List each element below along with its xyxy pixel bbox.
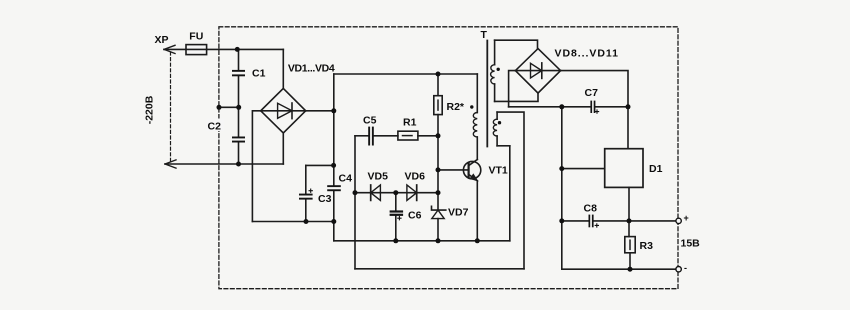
svg-text:C4: C4 [339,173,353,185]
svg-text:R1: R1 [403,117,417,129]
svg-text:C8: C8 [584,203,598,215]
svg-text:C3: C3 [318,193,332,205]
svg-text:VD5: VD5 [368,171,389,183]
svg-text:C1: C1 [252,68,266,80]
svg-text:VD7: VD7 [448,207,469,219]
svg-text:FU: FU [189,31,203,43]
svg-text:VD1...VD4: VD1...VD4 [288,63,335,75]
svg-text:-220B: -220B [144,95,156,124]
svg-text:VD8...VD11: VD8...VD11 [555,48,619,60]
svg-text:15B: 15B [681,238,701,250]
svg-text:+: + [684,213,689,223]
svg-text:C7: C7 [585,87,599,99]
svg-text:VD6: VD6 [405,171,426,183]
svg-text:XP: XP [155,34,169,46]
svg-text:C5: C5 [363,115,377,127]
svg-text:T: T [481,29,488,41]
svg-text:C6: C6 [408,210,422,222]
svg-text:R2*: R2* [447,101,465,113]
svg-text:C2: C2 [208,121,222,133]
svg-text:D1: D1 [649,163,663,175]
svg-text:R3: R3 [640,240,654,252]
svg-text:VT1: VT1 [489,165,508,177]
svg-text:-: - [684,263,687,273]
